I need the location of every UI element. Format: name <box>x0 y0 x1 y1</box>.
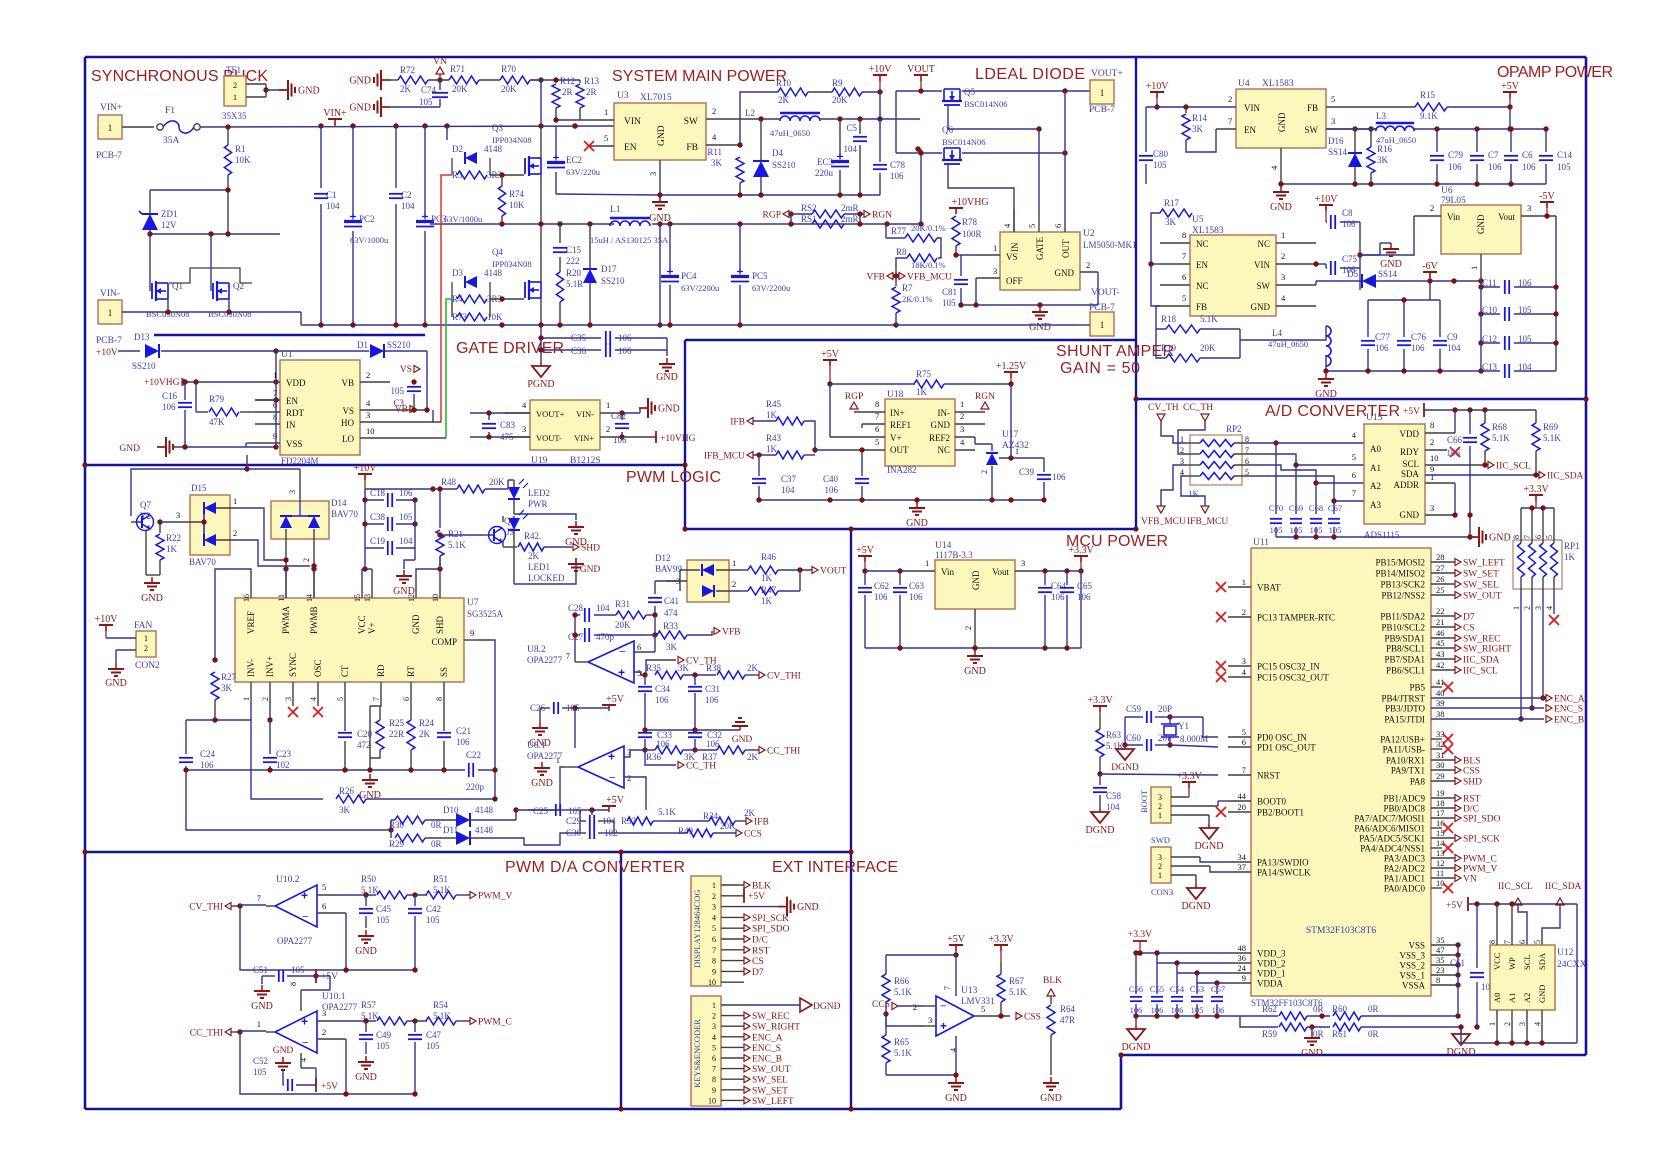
svg-text:R8: R8 <box>896 247 907 257</box>
svg-text:105: 105 <box>1518 334 1532 344</box>
svg-text:8: 8 <box>435 697 444 701</box>
svg-text:5: 5 <box>1182 293 1186 303</box>
svg-text:5: 5 <box>322 882 326 892</box>
svg-text:C74: C74 <box>421 85 437 95</box>
svg-text:SS14: SS14 <box>1328 147 1348 157</box>
svg-text:3: 3 <box>993 266 997 276</box>
svg-text:C61: C61 <box>1450 958 1465 968</box>
svg-text:OPAMP POWER: OPAMP POWER <box>1497 64 1613 81</box>
svg-text:XL1583: XL1583 <box>1262 79 1294 89</box>
svg-text:VOUT-: VOUT- <box>1091 288 1120 298</box>
capacitor EC2 <box>555 126 557 158</box>
net VFB <box>714 628 720 635</box>
capacitor C45 <box>365 895 367 906</box>
svg-text:D16: D16 <box>1328 136 1344 146</box>
op U7 SG3525A <box>235 598 464 682</box>
resistor R20 <box>556 272 563 302</box>
power flag +5V <box>1503 91 1517 93</box>
resistor R8 <box>937 238 941 258</box>
svg-text:VSSA: VSSA <box>1402 981 1426 991</box>
svg-text:SW_SEL: SW_SEL <box>752 1076 788 1086</box>
svg-text:13: 13 <box>1436 848 1445 858</box>
svg-text:+10V: +10V <box>354 463 378 474</box>
resistor R9 <box>808 91 832 93</box>
svg-text:SW_RIGHT: SW_RIGHT <box>752 1023 800 1033</box>
svg-text:15: 15 <box>1436 828 1445 838</box>
svg-text:+3.3V: +3.3V <box>1176 771 1202 782</box>
svg-text:ENC_B: ENC_B <box>752 1055 782 1065</box>
border frame <box>85 56 1586 59</box>
wire <box>540 126 542 158</box>
inductor L2 <box>780 112 820 115</box>
resistor R18 <box>1166 325 1200 333</box>
svg-text:U4: U4 <box>1238 79 1250 89</box>
capacitor C2 <box>395 126 397 188</box>
svg-text:2K: 2K <box>747 663 759 673</box>
svg-text:PB15/MOSI2: PB15/MOSI2 <box>1375 558 1425 568</box>
svg-text:PD0 OSC_IN: PD0 OSC_IN <box>1257 733 1307 743</box>
svg-text:5: 5 <box>875 437 879 447</box>
svg-text:GATE DRIVER: GATE DRIVER <box>456 340 564 357</box>
svg-text:PA8: PA8 <box>1410 777 1426 787</box>
resistor R22 <box>159 522 161 533</box>
svg-text:LO: LO <box>342 434 354 444</box>
svg-text:2: 2 <box>627 773 631 783</box>
resistor R62 <box>1240 1015 1278 1017</box>
wire <box>530 79 541 81</box>
svg-text:C2: C2 <box>401 190 412 200</box>
svg-text:1: 1 <box>960 399 964 409</box>
capacitor C42 <box>414 895 416 906</box>
svg-text:DGND: DGND <box>1086 825 1115 836</box>
svg-text:3K: 3K <box>666 642 678 652</box>
svg-text:2: 2 <box>1430 437 1434 447</box>
svg-text:2: 2 <box>1086 260 1090 270</box>
svg-text:C5: C5 <box>846 123 857 133</box>
svg-text:10: 10 <box>431 594 440 602</box>
power flag +5V <box>602 805 616 807</box>
svg-text:GND: GND <box>658 404 680 415</box>
svg-text:SCL: SCL <box>1402 459 1419 469</box>
svg-text:3K: 3K <box>1165 217 1177 227</box>
svg-text:SYNC: SYNC <box>288 653 298 677</box>
svg-text:GND: GND <box>1251 302 1271 312</box>
svg-text:EC2: EC2 <box>566 155 582 165</box>
wire enc <box>1542 589 1544 698</box>
svg-text:GND: GND <box>1270 202 1292 213</box>
svg-text:8: 8 <box>1182 230 1186 240</box>
svg-text:VIN+: VIN+ <box>100 103 122 113</box>
svg-text:+5V: +5V <box>606 795 625 806</box>
svg-text:20P: 20P <box>1158 733 1172 743</box>
svg-text:R74: R74 <box>509 189 525 199</box>
wire <box>1360 216 1414 255</box>
svg-text:BOOT: BOOT <box>1139 789 1149 813</box>
svg-text:DGND: DGND <box>813 1002 841 1012</box>
svg-text:20K/0.1%: 20K/0.1% <box>911 223 946 233</box>
svg-text:PB13/SCK2: PB13/SCK2 <box>1380 580 1425 590</box>
svg-text:GND: GND <box>1301 1048 1323 1059</box>
wire <box>451 158 453 175</box>
svg-text:VSS_3: VSS_3 <box>1399 951 1425 961</box>
svg-text:PA2/ADC2: PA2/ADC2 <box>1384 864 1425 874</box>
wire <box>886 1074 956 1076</box>
svg-text:12: 12 <box>1436 858 1445 868</box>
svg-text:R65: R65 <box>894 1037 910 1047</box>
wire comp net <box>494 770 496 799</box>
svg-text:GATE: GATE <box>1035 237 1045 260</box>
svg-text:13: 13 <box>363 594 372 602</box>
svg-text:R19: R19 <box>1161 343 1177 353</box>
svg-text:D15: D15 <box>191 483 207 493</box>
svg-text:8: 8 <box>712 957 716 966</box>
ground <box>539 722 541 728</box>
svg-text:104: 104 <box>1447 343 1461 353</box>
svg-text:OUT: OUT <box>890 445 909 455</box>
wire SW rail <box>430 223 614 225</box>
svg-text:VCC: VCC <box>1492 952 1502 970</box>
svg-text:SS210: SS210 <box>601 276 625 286</box>
svg-text:20K: 20K <box>615 620 631 630</box>
svg-text:CC_THI: CC_THI <box>190 1029 223 1039</box>
svg-text:IN: IN <box>1010 242 1020 252</box>
svg-text:VIN+: VIN+ <box>323 108 347 119</box>
svg-text:BAV70: BAV70 <box>189 557 216 567</box>
svg-text:RST: RST <box>1463 795 1481 805</box>
resistor R21 <box>439 489 441 528</box>
svg-text:OPA2277: OPA2277 <box>527 655 563 665</box>
wire gnd rail <box>186 769 465 771</box>
svg-text:SPI_SCK: SPI_SCK <box>752 914 789 924</box>
svg-text:DGND: DGND <box>1195 841 1224 852</box>
svg-text:+5V: +5V <box>1446 901 1463 911</box>
ground <box>365 1056 367 1062</box>
transistor Q2 <box>212 283 214 299</box>
wire vdd <box>1454 410 1456 433</box>
svg-text:Y1: Y1 <box>1178 721 1189 731</box>
capacitor C58 <box>1099 774 1101 785</box>
ground <box>955 1077 957 1083</box>
svg-text:Q7: Q7 <box>140 500 151 510</box>
svg-text:IPP034N08: IPP034N08 <box>492 135 532 145</box>
svg-text:PA0/ADC0: PA0/ADC0 <box>1384 884 1426 894</box>
X rp1 <box>1553 589 1555 614</box>
svg-text:VCC: VCC <box>357 615 367 634</box>
svg-text:R68: R68 <box>1492 422 1508 432</box>
wire cap gnd rail <box>1136 1015 1240 1017</box>
svg-text:+10V: +10V <box>1315 194 1339 205</box>
svg-text:LOCKED: LOCKED <box>528 573 565 583</box>
capacitor C68 <box>1315 483 1317 514</box>
svg-text:39: 39 <box>1436 698 1445 708</box>
svg-text:PWM_C: PWM_C <box>1463 855 1497 865</box>
wire <box>150 233 280 235</box>
power flag VOUT <box>914 74 928 76</box>
svg-text:J3: J3 <box>506 527 515 537</box>
svg-text:D11: D11 <box>443 825 458 835</box>
wire <box>861 424 863 428</box>
ground <box>916 502 918 508</box>
ground U4 <box>1280 186 1282 192</box>
svg-text:10K: 10K <box>235 155 251 165</box>
power flag VN <box>436 67 444 74</box>
net CSS <box>1016 1013 1022 1020</box>
svg-text:3: 3 <box>322 1008 326 1018</box>
svg-text:IFB: IFB <box>730 418 745 428</box>
svg-text:BOOT0: BOOT0 <box>1257 797 1286 807</box>
svg-text:2K: 2K <box>778 95 790 105</box>
svg-text:R67: R67 <box>1009 976 1025 986</box>
svg-text:VB: VB <box>341 378 354 388</box>
capacitor C8 <box>1326 221 1327 223</box>
wire gnd rail <box>1281 183 1546 185</box>
svg-text:ZD1: ZD1 <box>161 209 178 219</box>
svg-text:C51: C51 <box>253 965 268 975</box>
svg-text:Q1: Q1 <box>172 281 183 291</box>
svg-text:IFB_MCU: IFB_MCU <box>704 452 745 462</box>
svg-text:GND: GND <box>906 518 928 529</box>
svg-text:VS: VS <box>400 365 412 375</box>
svg-text:0R: 0R <box>431 820 442 830</box>
svg-text:106: 106 <box>456 737 470 747</box>
svg-text:28: 28 <box>1436 552 1445 562</box>
svg-text:1: 1 <box>273 370 277 380</box>
svg-text:EN: EN <box>1196 260 1208 270</box>
svg-text:PC15 OSC32_OUT: PC15 OSC32_OUT <box>1257 673 1329 683</box>
svg-text:XL1583: XL1583 <box>1192 226 1224 236</box>
svg-text:20K: 20K <box>832 95 848 105</box>
svg-text:R72: R72 <box>400 65 415 75</box>
svg-text:R36: R36 <box>646 752 662 762</box>
transistor Q1 <box>151 283 153 299</box>
svg-text:R45: R45 <box>766 399 782 409</box>
svg-text:SS14: SS14 <box>1378 269 1398 279</box>
svg-text:C68: C68 <box>1309 503 1323 513</box>
wire bottom rail <box>301 324 660 326</box>
svg-text:OPA2277: OPA2277 <box>277 936 313 946</box>
svg-text:GND: GND <box>251 1001 273 1012</box>
svg-text:4: 4 <box>1533 1022 1542 1026</box>
ground <box>1325 373 1327 379</box>
svg-text:6: 6 <box>1182 272 1186 282</box>
svg-text:2: 2 <box>233 528 237 538</box>
svg-text:2K: 2K <box>419 729 431 739</box>
svg-text:1: 1 <box>242 697 251 701</box>
svg-text:5.1K: 5.1K <box>1492 433 1510 443</box>
svg-text:5.1K: 5.1K <box>1200 314 1218 324</box>
svg-text:PA1/ADC1: PA1/ADC1 <box>1384 874 1425 884</box>
svg-text:Q5: Q5 <box>964 87 975 97</box>
capacitor PC3 <box>424 126 426 216</box>
svg-text:7: 7 <box>1503 940 1512 944</box>
svg-text:IIC_SDA: IIC_SDA <box>1463 656 1500 666</box>
resistor R11 <box>736 157 744 183</box>
wire fb loop <box>346 913 415 970</box>
svg-text:D13: D13 <box>134 332 150 342</box>
svg-text:U1: U1 <box>281 350 293 360</box>
svg-text:C8: C8 <box>1342 208 1353 218</box>
svg-text:PWM_C: PWM_C <box>478 1018 512 1028</box>
resistor R24 <box>410 700 412 720</box>
svg-text:STM32F103C8T6: STM32F103C8T6 <box>1306 926 1376 936</box>
svg-text:C7: C7 <box>1488 150 1499 160</box>
capacitor C32 <box>694 730 696 732</box>
transistor Q4 <box>524 282 526 298</box>
svg-text:1K: 1K <box>166 544 178 554</box>
svg-text:PC15 OSC32_IN: PC15 OSC32_IN <box>1257 662 1320 672</box>
svg-text:C42: C42 <box>426 904 441 914</box>
svg-text:VREF: VREF <box>246 611 256 634</box>
capacitor C66 <box>1469 410 1471 434</box>
svg-text:1: 1 <box>108 308 113 318</box>
svg-text:4: 4 <box>309 697 318 701</box>
U7 pins <box>250 585 252 598</box>
svg-text:VDD: VDD <box>286 378 306 388</box>
svg-text:VIN+: VIN+ <box>574 433 594 443</box>
svg-text:C70: C70 <box>1269 503 1283 513</box>
wire NRST <box>1100 774 1218 775</box>
ground DGND <box>1460 1027 1462 1030</box>
svg-text:R35: R35 <box>646 663 662 673</box>
power flag +3.3V <box>1093 705 1107 707</box>
svg-text:PWMB: PWMB <box>309 606 319 634</box>
svg-text:C9: C9 <box>1447 332 1458 342</box>
svg-text:PA7/ADC7/MOSI1: PA7/ADC7/MOSI1 <box>1354 814 1425 824</box>
resistor R79 <box>195 382 197 412</box>
svg-text:PA14/SWCLK: PA14/SWCLK <box>1257 868 1311 878</box>
ground <box>645 729 740 731</box>
wire Q5 gate <box>948 106 1039 210</box>
svg-text:6: 6 <box>1242 737 1246 747</box>
power flag +5V <box>315 1078 317 1092</box>
svg-text:+5V: +5V <box>856 545 875 556</box>
resistor R13 <box>579 80 581 83</box>
svg-text:R78: R78 <box>962 217 978 227</box>
resistor R16 <box>1370 129 1372 147</box>
svg-text:2mR: 2mR <box>841 214 859 224</box>
svg-text:5.1K: 5.1K <box>1009 987 1027 997</box>
svg-text:C57: C57 <box>1211 984 1225 994</box>
svg-text:A3: A3 <box>1370 500 1381 510</box>
svg-text:SW_SEL: SW_SEL <box>1463 581 1499 591</box>
svg-text:L3: L3 <box>1376 111 1386 121</box>
svg-text:D7: D7 <box>1463 613 1475 623</box>
svg-text:−: − <box>940 1001 946 1013</box>
connector VIN+ <box>98 115 122 139</box>
svg-text:C69: C69 <box>1289 503 1303 513</box>
svg-text:+5V: +5V <box>1403 407 1420 417</box>
ground <box>1470 536 1479 538</box>
wire VSS gnd <box>246 442 255 444</box>
svg-text:3K: 3K <box>339 805 351 815</box>
capacitor C65 <box>1066 571 1068 585</box>
svg-text:C62: C62 <box>874 581 889 591</box>
ground <box>115 663 117 669</box>
svg-text:NC: NC <box>1196 239 1209 249</box>
net CCS <box>736 830 742 837</box>
wire vss rail <box>1457 945 1459 1016</box>
svg-text:GND: GND <box>732 735 753 745</box>
svg-text:102: 102 <box>276 760 290 770</box>
capacitor C54 <box>1176 973 1178 994</box>
svg-text:U8.1: U8.1 <box>527 741 546 751</box>
net +10VHG <box>649 436 656 438</box>
svg-text:R63: R63 <box>1106 730 1122 740</box>
svg-text:INA282: INA282 <box>887 465 917 475</box>
diode D5 <box>1315 281 1317 285</box>
svg-text:7: 7 <box>875 411 879 421</box>
wire xtal <box>1124 717 1126 745</box>
svg-text:5.1K: 5.1K <box>361 1011 379 1021</box>
svg-text:3: 3 <box>712 1022 716 1031</box>
svg-text:GND: GND <box>649 213 671 224</box>
svg-text:20K: 20K <box>489 477 505 487</box>
svg-text:R43: R43 <box>766 433 782 443</box>
svg-text:SPI_SDO: SPI_SDO <box>752 925 790 935</box>
svg-text:106: 106 <box>825 485 839 495</box>
svg-text:CSS: CSS <box>1463 767 1480 777</box>
svg-text:22R: 22R <box>389 729 404 739</box>
svg-text:6: 6 <box>322 901 326 911</box>
svg-text:47uH_0650: 47uH_0650 <box>770 128 810 138</box>
svg-text:1: 1 <box>1100 320 1105 330</box>
svg-text:RT: RT <box>406 666 416 677</box>
capacitor C77 <box>1367 300 1369 337</box>
svg-text:RST: RST <box>752 946 770 956</box>
svg-text:GND: GND <box>355 1072 377 1083</box>
svg-text:C60: C60 <box>1126 733 1142 743</box>
svg-text:C16: C16 <box>162 391 178 401</box>
capacitor C15 <box>559 224 561 243</box>
svg-text:U6: U6 <box>1441 186 1453 196</box>
svg-text:GND: GND <box>1277 112 1287 132</box>
svg-text:1: 1 <box>257 1019 261 1029</box>
net CC_THI <box>225 1029 231 1036</box>
svg-text:SPI_SCK: SPI_SCK <box>1463 835 1500 845</box>
svg-text:8.000M: 8.000M <box>1180 734 1208 744</box>
inductor L4 <box>1240 326 1326 340</box>
capacitor C20 <box>344 700 346 731</box>
svg-text:BSC014N06: BSC014N06 <box>964 99 1007 109</box>
svg-text:V+: V+ <box>890 433 902 443</box>
ground DGND <box>1195 875 1197 884</box>
wire <box>446 126 448 140</box>
svg-text:9: 9 <box>712 967 716 976</box>
svg-text:5: 5 <box>1242 727 1246 737</box>
capacitor C67 <box>1333 501 1335 514</box>
svg-text:PWM_V: PWM_V <box>478 892 512 902</box>
resistor R66 <box>886 954 956 956</box>
svg-text:Vin: Vin <box>941 567 954 577</box>
ground <box>666 358 668 364</box>
capacitor C21 <box>443 700 445 731</box>
svg-text:35: 35 <box>1436 935 1445 945</box>
capacitor C14 <box>1545 129 1547 152</box>
svg-text:2: 2 <box>1281 251 1285 261</box>
svg-text:XL7015: XL7015 <box>640 93 672 103</box>
svg-text:4148: 4148 <box>475 805 494 815</box>
svg-text:21: 21 <box>1436 617 1445 627</box>
svg-text:SW_OUT: SW_OUT <box>1463 592 1502 602</box>
svg-text:SW_LEFT: SW_LEFT <box>1463 559 1505 569</box>
svg-text:DGND: DGND <box>1122 1042 1151 1053</box>
svg-text:2mR: 2mR <box>841 203 859 213</box>
svg-text:C76: C76 <box>1411 332 1427 342</box>
svg-text:R17: R17 <box>1164 198 1180 208</box>
svg-text:R79: R79 <box>209 394 225 404</box>
svg-text:474: 474 <box>664 608 678 618</box>
svg-text:30: 30 <box>1436 760 1445 770</box>
